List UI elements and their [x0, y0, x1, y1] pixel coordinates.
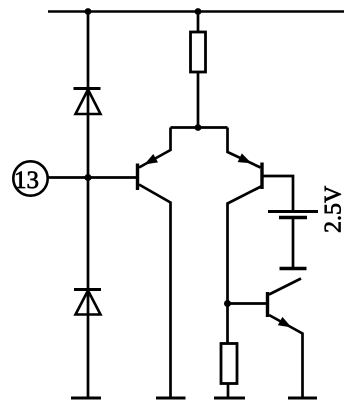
power rail (top supply bus) — [48, 10, 344, 13]
junction on rail at resistor branch — [195, 8, 202, 15]
transistor Q2 (right PNP of diff pair) — [228, 128, 263, 344]
diode D2 (cathode up) — [74, 290, 101, 315]
wire: junction to Q3 base — [228, 302, 267, 305]
wire: Q2 base to battery — [264, 176, 294, 212]
junction dot at Q2 collector / Q3 base — [224, 300, 231, 307]
ground bar under diode branch — [71, 397, 101, 400]
transistor Q1 (left PNP of diff pair) — [138, 128, 171, 399]
ground bar under Q1 collector — [156, 397, 186, 400]
value label 2.5V — [325, 186, 341, 232]
junction dot at node 13 line and diode branch — [85, 174, 92, 181]
wire: R1 to tail junction — [197, 72, 200, 128]
junction dot at differential pair tail — [195, 124, 202, 131]
ground bar under Q3 emitter — [288, 397, 317, 400]
node 13 terminal circle — [13, 161, 47, 195]
resistor R1 (tail resistor) — [191, 32, 206, 72]
transistor Q3 (NPN output follower) — [268, 279, 303, 399]
wire: rail to resistor R1 — [197, 12, 200, 33]
battery 2.5V — [268, 212, 318, 269]
wire: tail horizontal to both emitters — [171, 126, 228, 129]
wire: left vertical branch through diodes — [87, 12, 90, 399]
wire: R2 to ground — [227, 384, 230, 399]
resistor R2 (Q3 base pulldown) — [221, 344, 237, 384]
diode D1 (cathode up) — [74, 89, 101, 115]
wire: node 13 to Q1 base — [47, 176, 137, 179]
ground bar under R2 — [214, 397, 245, 400]
junction on rail at diode branch — [85, 8, 92, 15]
